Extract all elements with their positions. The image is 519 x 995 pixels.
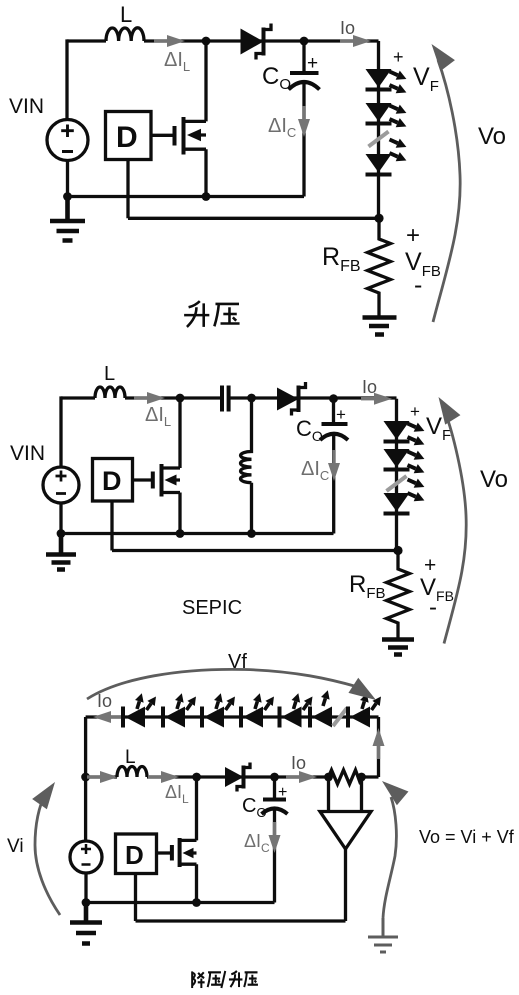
- LED row: D14: [280, 692, 317, 728]
- svg-text:Vi: Vi: [7, 836, 24, 857]
- svg-text:L: L: [104, 363, 115, 385]
- ground c1 right: [363, 318, 397, 335]
- wire source to rail c3: [84, 873, 87, 903]
- svg-text:Io: Io: [340, 18, 355, 38]
- label 降压/升压 (buck/boost): [192, 971, 258, 988]
- svg-text:VIN: VIN: [9, 95, 44, 118]
- node Q3 source-rail junction: [192, 898, 201, 907]
- LED row: D15: [310, 689, 332, 728]
- source VIN c2: [43, 467, 79, 503]
- svg-text:+: +: [278, 784, 287, 801]
- arrow Vo c1: [433, 60, 460, 322]
- wire LED string vertical c2: [395, 399, 398, 551]
- LED D2: [366, 67, 409, 97]
- arrow Vi c3: [35, 792, 60, 915]
- arrow Io c3 top: [93, 711, 124, 723]
- wire bottom rail c1: [68, 195, 305, 198]
- arrow Vf arc c3: [87, 669, 358, 699]
- source VIN c1: [47, 120, 88, 161]
- arrow Vo c2: [444, 412, 466, 644]
- svg-text:+: +: [406, 222, 420, 249]
- node sense-resistor right c3: [357, 773, 366, 782]
- svg-text:SEPIC: SEPIC: [182, 597, 242, 619]
- label 升压 (boost): [184, 301, 239, 327]
- diode D17 schottky: [225, 763, 250, 792]
- capacitor Co c1: [289, 41, 320, 197]
- node source-rail junction c3: [82, 898, 91, 907]
- node feedback junction c1: [374, 214, 383, 223]
- arrow delta-IC c2: [328, 450, 340, 481]
- break slash c1: [369, 132, 389, 147]
- svg-text:+: +: [410, 402, 420, 421]
- node Q1 source-rail junction: [202, 192, 211, 201]
- wire D feedback c2: [112, 501, 398, 551]
- node L2b-rail junction: [247, 529, 256, 538]
- wire bottom rail c2: [61, 532, 334, 535]
- arrow delta-IL c1: [154, 35, 185, 47]
- arrow up right c3: [373, 728, 385, 759]
- node feedback junction c2: [393, 546, 402, 555]
- svg-text:Vo: Vo: [478, 123, 506, 150]
- op-amp U1: [320, 777, 371, 921]
- diode D5 schottky: [277, 382, 306, 416]
- arrow Io c3 mid: [286, 771, 317, 783]
- arrow delta-IL c2: [134, 392, 165, 404]
- node left junction c3: [81, 773, 90, 782]
- D block c2: [93, 459, 133, 502]
- wire left vertical c3: [84, 717, 87, 841]
- ground c3 left: [70, 903, 102, 944]
- svg-text:Vo: Vo: [480, 466, 508, 493]
- transistor Q1: [151, 41, 206, 197]
- wire right vertical c3: [377, 717, 380, 777]
- wire main row c3: [86, 775, 379, 778]
- LED D6: [384, 419, 427, 449]
- svg-text:+: +: [393, 47, 404, 67]
- break slash c3: [333, 708, 347, 726]
- wire top rail c1: [67, 39, 379, 42]
- svg-text:-: -: [429, 594, 437, 621]
- node diode-cap junction: [300, 37, 309, 46]
- svg-text:+: +: [336, 405, 346, 424]
- ground c2 left: [46, 534, 76, 570]
- LED D8: [384, 475, 427, 514]
- wire top rail c2: [61, 396, 397, 399]
- arrow delta-IC c3: [269, 822, 281, 853]
- svg-text:+: +: [307, 53, 318, 74]
- svg-text:Vo = Vi + Vf: Vo = Vi + Vf: [419, 827, 515, 847]
- transistor Q2: [133, 398, 181, 534]
- inductor L3: [117, 767, 147, 778]
- LED row: D16: [348, 692, 385, 728]
- ground c2 right: [382, 640, 414, 655]
- inductor L1: [106, 28, 144, 41]
- diode D1 schottky: [241, 24, 272, 60]
- arrow delta-IC c1: [298, 106, 310, 137]
- LED D7: [384, 447, 427, 477]
- wire VIN to rail c2: [59, 503, 62, 534]
- arrow Io c2: [361, 393, 392, 405]
- LED row: D10: [123, 692, 160, 728]
- D block c3: [116, 834, 157, 874]
- node diode-cap junction c2: [329, 394, 338, 403]
- wire LED row c3: [86, 715, 379, 718]
- wire LED string vertical c1: [377, 41, 380, 218]
- node VIN-ground junction: [63, 192, 72, 201]
- svg-text:L: L: [120, 2, 132, 27]
- ground c1 left: [50, 197, 85, 241]
- inductor L2b vertical: [241, 398, 252, 534]
- LED row: D11: [163, 692, 200, 728]
- resistor Rs c3: [329, 770, 362, 784]
- source Vi c3: [70, 841, 102, 873]
- wire bottom rail c3: [86, 901, 275, 904]
- svg-text:L: L: [125, 747, 136, 768]
- node inductor-diode junction: [202, 37, 211, 46]
- break slash c2: [387, 476, 407, 491]
- node L-switch junction c3: [192, 773, 201, 782]
- svg-text:D: D: [125, 840, 144, 870]
- node L-switch junction c2: [176, 394, 185, 403]
- node Q2 source-rail junction: [176, 529, 185, 538]
- svg-text:Io: Io: [97, 691, 112, 711]
- LED row: D12: [202, 692, 239, 728]
- arrow Vo c3: [383, 797, 396, 918]
- svg-text:D: D: [102, 466, 122, 496]
- node cap-L2b junction: [247, 394, 256, 403]
- LED row: D13: [241, 692, 278, 728]
- LED D3: [366, 101, 409, 131]
- arrow delta-IL c3: [148, 771, 179, 783]
- svg-text:Io: Io: [291, 753, 306, 773]
- ground c3 right gray: [368, 918, 398, 952]
- arrow Io c1: [340, 35, 371, 47]
- node diode-cap junction c3: [270, 773, 279, 782]
- transistor Q3: [157, 777, 197, 903]
- wire D feedback c1: [128, 160, 379, 219]
- capacitor C2 coupling: [222, 386, 229, 412]
- wire feedback c3: [136, 874, 346, 922]
- resistor RFB c1: [368, 218, 391, 316]
- svg-text:-: -: [414, 271, 422, 299]
- wire left vertical c2: [59, 396, 62, 467]
- node VIN-rail junction c2: [57, 529, 66, 538]
- svg-text:D: D: [116, 121, 138, 154]
- node sense-resistor left c3: [324, 773, 333, 782]
- capacitor Co c3: [262, 777, 288, 903]
- capacitor Co c2: [320, 399, 348, 534]
- resistor RFB c2: [387, 551, 410, 639]
- wire left vertical c1: [65, 39, 68, 119]
- svg-text:VIN: VIN: [10, 442, 45, 465]
- arrow row start c3: [87, 771, 118, 783]
- svg-text:Io: Io: [362, 377, 377, 397]
- D block c1: [106, 112, 152, 160]
- LED D4: [366, 135, 409, 175]
- svg-text:Vf: Vf: [228, 651, 247, 673]
- inductor L2a: [95, 387, 125, 398]
- wire VIN to ground node: [66, 161, 69, 197]
